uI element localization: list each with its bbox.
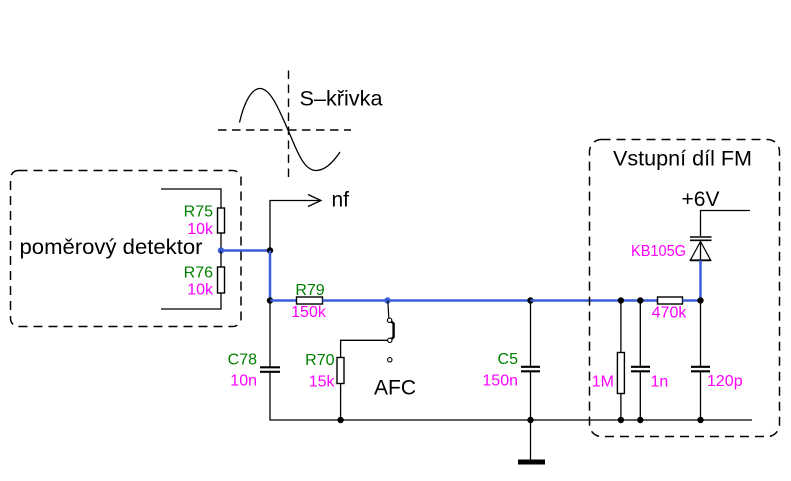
label C5 [498,351,519,368]
svg-text:Vstupní díl FM: Vstupní díl FM [613,148,752,171]
wire blue vertical node A to node B [269,251,272,301]
value 470k [652,305,688,322]
svg-text:S–křivka: S–křivka [300,88,383,111]
switch contact top [387,318,391,322]
label +6V [682,188,720,211]
label R75 [184,204,213,221]
resistor R70 [337,358,344,384]
svg-text:R79: R79 [295,282,324,299]
junction ground tap [527,417,533,423]
svg-text:C78: C78 [228,352,257,369]
label KB105G [631,243,686,260]
resistor R79 [297,297,323,304]
label R70 [305,352,334,369]
junction node B [267,297,273,303]
svg-text:15k: 15k [309,374,336,391]
S-curve horizontal dashed axis [218,129,351,131]
resistor 1M [617,353,624,394]
capacitor 1n [631,367,650,372]
junction node A [267,247,273,253]
wire blue 470k to diode node [683,299,701,302]
wire blue node B to R79 [270,299,297,302]
value 1M [592,374,614,391]
value 1n [651,374,669,391]
value 10k (R76) [187,282,214,299]
label Vstupni dil FM [613,148,752,171]
wire top internal left box [161,189,221,208]
junction 1M top [618,297,624,303]
value 150k [291,304,327,321]
wire C5 top leg [530,301,532,366]
label C78 [228,352,257,369]
junction 1n bottom [637,417,643,423]
switch contact middle [388,338,392,342]
dashed box Vstupni dil FM [590,140,780,437]
svg-text:120p: 120p [707,373,743,390]
junction diode node [697,297,703,303]
svg-text:nf: nf [332,189,350,212]
wire R75 bottom to node [220,233,222,251]
svg-text:poměrový detektor: poměrový detektor [20,236,203,259]
svg-text:470k: 470k [652,305,688,322]
label nf [332,189,350,212]
wire 120p top leg [700,301,702,366]
wire 1M top leg [620,301,622,353]
switch contact open [388,358,392,362]
wire C78 bottom leg [270,373,341,420]
svg-text:R75: R75 [184,204,213,221]
wire blue detector node to junction [221,249,270,252]
value 10n [230,373,257,390]
value 120p [707,373,743,390]
svg-text:R70: R70 [305,352,334,369]
wire blue C5 node to 470k [531,299,658,302]
label R76 [184,265,213,282]
svg-text:10k: 10k [187,282,214,299]
capacitor C78 [260,367,280,372]
value 150n [482,373,518,390]
label R79 [295,282,324,299]
junction C5 top [527,297,533,303]
wire C5 bottom leg [530,372,532,420]
junction 120p bottom [697,417,703,423]
wire nf branch [270,201,321,251]
svg-text:AFC: AFC [374,377,416,400]
wire switch to R70 [341,340,388,357]
arrowhead nf [308,195,321,207]
wire R76 bottom internal [161,293,221,309]
wire R70 to ground rail [340,384,342,421]
wire ground rail [341,419,752,421]
junction R70 ground [337,417,343,423]
dashed box pomerovy detektor [11,171,242,327]
svg-text:150n: 150n [482,373,518,390]
node switch tap (blue dot) [384,297,390,303]
svg-text:C5: C5 [498,351,519,368]
capacitor C5 [521,367,540,372]
wire blue R79 to switch node [323,299,388,302]
label pomerovy detektor [20,236,203,259]
svg-text:KB105G: KB105G [631,243,686,260]
wire ground stem [530,420,532,460]
varicap diode KB105G [690,237,712,260]
S-curve vertical dashed axis [288,71,290,178]
resistor R76 [218,267,225,293]
switch blade [391,322,393,340]
wire C78 top leg [269,301,271,367]
wire blue diode to main node [699,260,702,300]
label S-krivka [300,88,383,111]
ground [518,460,545,465]
svg-text:10n: 10n [230,373,257,390]
svg-text:150k: 150k [291,304,327,321]
resistor 470k [658,297,683,304]
label AFC [374,377,416,400]
wire 1n bottom leg [639,371,641,420]
node detector output (blue dot) [218,247,224,253]
capacitor 120p [691,367,710,372]
svg-text:+6V: +6V [682,188,720,211]
wire blue switch node to C5 node [388,299,531,302]
wire 1n top leg [639,301,641,366]
value 10k (R75) [187,221,214,238]
wire 120p bottom leg [700,371,702,420]
wire switch stem [388,301,389,319]
S-curve sine wave [240,89,341,171]
junction 1M bottom [618,417,624,423]
wire +6V rail [701,211,751,237]
value 15k [309,374,336,391]
svg-text:1M: 1M [592,374,614,391]
resistor R75 [218,208,225,233]
wire node to R76 [220,251,222,268]
svg-text:10k: 10k [187,221,214,238]
svg-text:R76: R76 [184,265,213,282]
svg-text:1n: 1n [651,374,669,391]
wire 1M bottom leg [620,394,622,421]
junction 1n top [637,297,643,303]
